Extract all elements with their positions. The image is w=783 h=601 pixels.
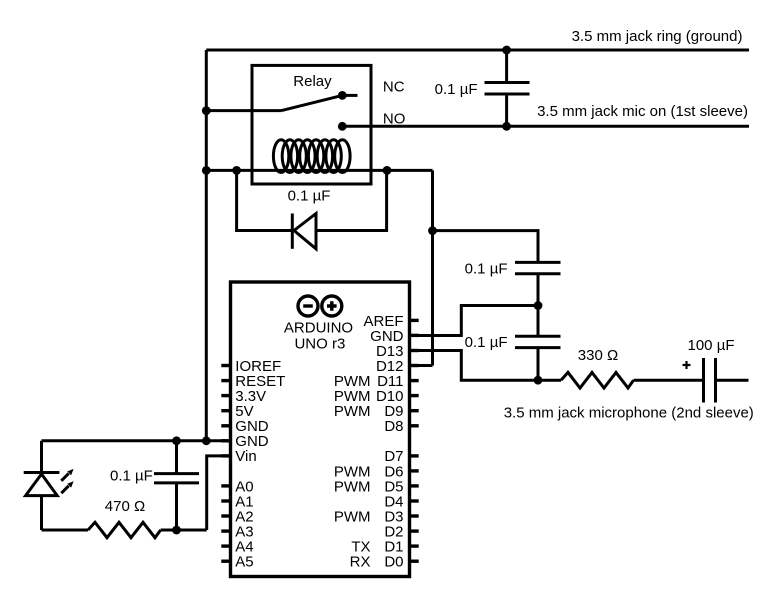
pin D11 (right side) (334, 373, 419, 390)
capacitor C4 100 uF electrolytic (704, 358, 716, 403)
pin D5 (right side) (334, 478, 419, 495)
pin D10 (right side) (334, 388, 419, 405)
junction: coil line at left rail (202, 166, 211, 175)
pin D12 (right side) (376, 358, 419, 375)
pin D6 (right side) (334, 463, 419, 480)
resistor R2 330 ohm (561, 372, 634, 388)
svg-text:0.1 µF: 0.1 µF (465, 334, 508, 351)
pin 3.3V (left side) (221, 388, 266, 405)
svg-text:PWM: PWM (334, 403, 371, 420)
wire: R2 to C4 (634, 379, 704, 382)
svg-text:Vin: Vin (235, 448, 256, 465)
LED D2 (24, 441, 60, 530)
svg-text:330 Ω: 330 Ω (578, 347, 618, 364)
node: relay NC contact (338, 91, 347, 100)
pin A3 (left side) (221, 524, 253, 541)
svg-text:0.1 µF: 0.1 µF (288, 187, 331, 204)
junction: diode branch right (383, 166, 392, 175)
node: relay NO contact (338, 122, 347, 131)
svg-text:470 Ω: 470 Ω (105, 498, 145, 515)
pin AREF (right side) (363, 313, 418, 330)
svg-text:100 µF: 100 µF (688, 337, 735, 354)
wire: Arduino GND pin left to LED branch (42, 439, 231, 442)
pin D2 (right side) (384, 524, 418, 541)
pin GND (right side) (370, 328, 419, 345)
wire: left vertical rail (ground net) (205, 50, 208, 441)
pin D9 (right side) (334, 403, 419, 420)
relay switch arm (common to NC) (282, 95, 343, 110)
pin D13 (right side) (376, 343, 419, 360)
svg-text:PWM: PWM (334, 508, 371, 525)
pin D3 (right side) (334, 508, 419, 525)
pin D0 (right side) (350, 554, 419, 571)
capacitor C3 0.1 uF (lower right) (515, 306, 561, 381)
pin D8 (right side) (384, 418, 418, 435)
junction: C5 top lead on GND wire (172, 436, 181, 445)
wire: up to Arduino Vin pin (207, 456, 231, 530)
capacitor C5 0.1 uF (bottom left) (154, 441, 199, 530)
junction: C3 bottom on microphone line (534, 376, 543, 385)
pin D7 (right side) (384, 448, 418, 465)
pin GND (left side) (221, 418, 268, 435)
svg-text:NC: NC (383, 79, 405, 96)
Arduino UNO r3 box U1 (231, 282, 410, 577)
capacitor C2 0.1 uF (upper right) (515, 262, 561, 305)
svg-text:3.5 mm jack ring (ground): 3.5 mm jack ring (ground) (572, 28, 743, 45)
pin A5 (left side) (221, 554, 253, 571)
svg-text:0.1 µF: 0.1 µF (465, 260, 508, 277)
polarity + mark for C4 (683, 361, 691, 369)
svg-text:Relay: Relay (293, 73, 332, 90)
wire: R1 to Vin corner (161, 529, 207, 532)
junction: diode branch left (232, 166, 241, 175)
pin D4 (right side) (384, 493, 418, 510)
pin 5V (left side) (221, 403, 253, 420)
junction: C1 top lead on ring line (502, 46, 511, 55)
pin A1 (left side) (221, 493, 253, 510)
LED light arrow 2 (61, 481, 73, 493)
relay coil (inductor, 8 loops) (273, 140, 350, 173)
wire: Arduino GND pin to capacitor chain midpoint (410, 306, 539, 336)
junction: branch to right capacitor chain (428, 226, 437, 235)
wire: coil line from left rail through coil to right rail (206, 169, 432, 172)
pin IOREF (left side) (221, 358, 281, 375)
svg-text:RX: RX (350, 554, 371, 571)
svg-text:0.1 µF: 0.1 µF (110, 467, 153, 484)
svg-text:D8: D8 (384, 418, 403, 435)
junction: C1 bottom lead on mic-on line (502, 122, 511, 131)
pin A2 (left side) (221, 508, 253, 525)
junction: C5 bottom lead (172, 526, 181, 535)
svg-text:ARDUINO: ARDUINO (284, 320, 353, 337)
Arduino logo (minus circle) (298, 296, 318, 316)
pin A4 (left side) (221, 539, 253, 556)
junction: left rail meets GND wire (202, 436, 211, 445)
Arduino logo (plus circle) (322, 296, 342, 316)
LED light arrow 1 (61, 469, 73, 481)
pin D1 (right side) (351, 539, 418, 556)
wire: Arduino D13 down to microphone line (410, 351, 562, 381)
svg-text:A5: A5 (235, 554, 253, 571)
pin RESET (left side) (221, 373, 285, 390)
wire: relay NC contact stub (342, 94, 357, 97)
capacitor C1 0.1 uF (between jack ring and mic-on lines) (485, 50, 530, 126)
junction: C2 bottom with GND wire (534, 301, 543, 310)
wire: 3.5mm jack ring (ground) net, top horizontal (206, 49, 749, 52)
svg-text:UNO r3: UNO r3 (294, 335, 345, 352)
wire: LED bottom to R1 (42, 529, 89, 532)
wire: branch to top of C2 (433, 231, 539, 262)
svg-text:PWM: PWM (334, 478, 371, 495)
wire: relay NO contact to 3.5mm jack mic-on line (342, 125, 749, 128)
svg-text:3.5 mm jack microphone (2nd sl: 3.5 mm jack microphone (2nd sleeve) (504, 404, 754, 421)
svg-text:0.1 µF: 0.1 µF (435, 81, 478, 98)
wire: C4 to jack microphone terminal (716, 379, 749, 382)
junction: left rail to switch common (202, 106, 211, 115)
svg-text:D0: D0 (384, 554, 403, 571)
resistor R1 470 ohm (88, 522, 161, 537)
relay K1 box (252, 65, 371, 184)
wire: rail from coil line down to Arduino D12 (431, 170, 434, 365)
diode D1 flyback across relay coil (237, 170, 387, 248)
svg-text:3.5 mm jack mic on (1st sleeve: 3.5 mm jack mic on (1st sleeve) (537, 103, 748, 120)
pin A0 (left side) (221, 478, 253, 495)
wire: relay switch common from left rail (206, 109, 281, 112)
pin Vin (left side) (221, 448, 256, 465)
svg-text:NO: NO (383, 111, 406, 128)
wire: Arduino D12 pin to rail (410, 364, 433, 367)
pin GND (left side) (221, 433, 268, 450)
